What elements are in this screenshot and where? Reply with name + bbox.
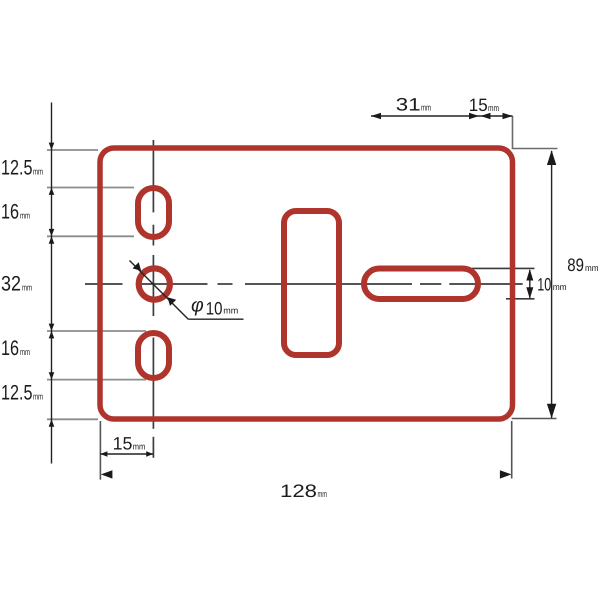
10mm dimension arrowheads [526,269,533,299]
svg-text:mm: mm [20,347,30,357]
plate outline [100,148,513,419]
extension line 128mm right [511,421,513,479]
svg-text:12.5: 12.5 [1,157,33,180]
svg-text:mm: mm [223,306,238,316]
circle diameter leader diagonal line [130,261,189,320]
svg-text:mm: mm [33,392,43,402]
extension line right bottom (89mm lower) [512,418,557,420]
89mm dimension line [551,151,553,418]
centerline horizontal through holes [85,283,523,285]
svg-text:31: 31 [396,95,421,115]
svg-text:15: 15 [113,434,133,454]
extension line 128mm/15mm left [99,421,101,480]
svg-text:89: 89 [567,255,584,275]
10mm dimension line [529,270,531,298]
extension line bottom slot lower [47,379,146,381]
circle diameter leader arrowheads [133,262,177,306]
top slot hole [138,188,169,237]
extension line top-left plate edge [47,149,98,151]
svg-text:mm: mm [421,103,431,113]
15mm dimension line bottom [100,453,153,455]
left dimension chain line [51,103,53,464]
extension line bottom slot upper [47,330,146,332]
extension line right top (89mm upper) [513,116,558,149]
svg-text:φ: φ [191,295,204,317]
svg-text:mm: mm [318,489,328,499]
svg-text:16: 16 [1,200,19,223]
centerline vertical through holes [152,140,154,458]
svg-text:mm: mm [585,263,599,273]
extension line top slot lower [47,235,134,237]
extension line 10mm lower [506,298,535,300]
left dimension chain arrowheads (12.5/16/32/16/12.5) [49,143,55,427]
svg-text:mm: mm [20,210,30,220]
svg-text:10: 10 [537,274,551,294]
svg-text:128: 128 [280,481,317,501]
extension line top slot upper [47,187,134,189]
middle vertical slot hole [284,211,339,355]
svg-text:mm: mm [22,282,32,292]
top dimension arrowheads 31mm/15mm [371,113,513,120]
svg-text:mm: mm [488,103,499,113]
svg-text:mm: mm [33,167,43,177]
svg-text:mm: mm [133,442,146,452]
svg-text:32: 32 [1,272,21,295]
svg-text:12.5: 12.5 [1,382,33,405]
15mm dimension arrowheads [100,451,153,457]
circle diameter leader underline [188,318,243,320]
89mm dimension arrowheads [547,150,556,418]
center circle hole [139,268,170,299]
bottom slot hole [138,333,169,378]
svg-text:10: 10 [206,299,223,319]
svg-text:15: 15 [469,95,488,115]
horizontal slot hole [364,269,478,300]
top dimension line 31/15 [371,115,513,117]
extension line 10mm upper [472,267,535,269]
svg-text:mm: mm [553,282,567,292]
128mm dimension arrows [101,470,512,478]
extension line bottom-left plate edge [47,418,98,420]
svg-text:16: 16 [1,337,19,360]
